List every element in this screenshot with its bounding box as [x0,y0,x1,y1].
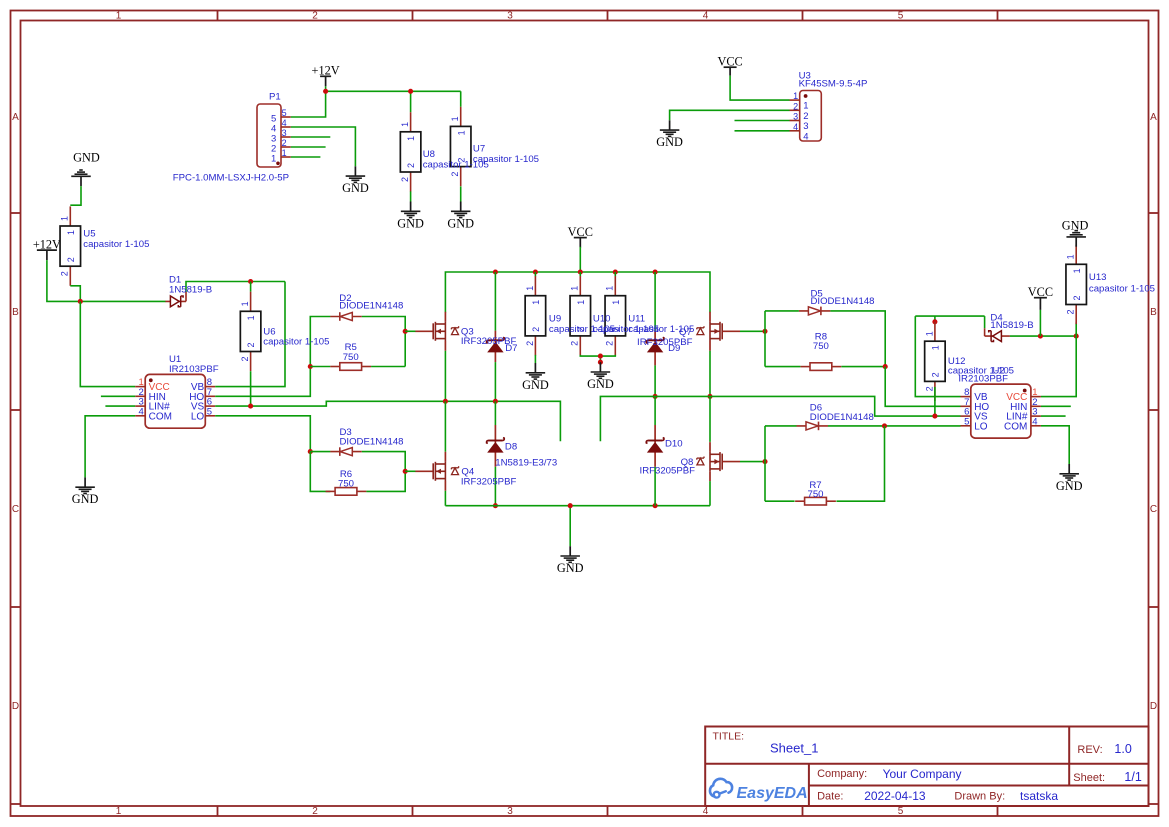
svg-text:GND: GND [73,151,100,165]
svg-text:D9: D9 [668,343,680,354]
svg-text:GND: GND [1056,479,1083,493]
transistor Q7 [697,312,740,351]
wire [984,316,986,328]
capacitor U13 [1066,245,1087,324]
svg-text:U8: U8 [423,149,435,160]
svg-text:1N5819-B: 1N5819-B [990,320,1033,331]
wire [291,156,321,158]
diode D6 [797,422,829,431]
svg-text:P1: P1 [269,92,281,103]
capacitor U5 [60,206,81,285]
ground (U1 COM) [72,477,99,506]
wire [80,301,135,386]
svg-text:A: A [1150,112,1157,123]
junction [78,299,83,304]
wire [444,401,446,452]
wire [1041,426,1069,464]
junction [308,449,313,454]
svg-text:1: 1 [793,91,798,101]
svg-text:5: 5 [207,406,212,417]
wire [47,260,166,301]
svg-text:1: 1 [60,216,70,221]
resistor R5 [330,363,371,371]
svg-text:2022-04-13: 2022-04-13 [864,789,926,803]
wire [445,505,710,507]
junction [762,459,767,464]
wire [410,191,412,201]
svg-text:DIODE1N4148: DIODE1N4148 [811,296,875,307]
svg-text:Date:: Date: [817,791,843,803]
svg-text:2: 2 [312,806,318,817]
wire [310,452,330,492]
wire [250,282,252,292]
wire [740,330,765,332]
wire [915,315,984,317]
ground (U5 top) [71,151,100,187]
svg-text:1: 1 [66,230,76,235]
svg-text:IRF3205PBF: IRF3205PBF [640,466,696,477]
svg-text:1: 1 [1066,254,1076,259]
svg-text:capasitor 1-105: capasitor 1-105 [263,336,329,347]
svg-text:GND: GND [447,216,474,230]
wire [709,396,711,442]
svg-text:Sheet:: Sheet: [1073,772,1105,784]
capacitor U10 [570,276,591,355]
wire [215,401,560,441]
svg-text:U13: U13 [1089,272,1107,283]
diode D8 [487,425,505,467]
title block texts [713,731,1142,804]
svg-text:5: 5 [898,806,904,817]
wire [830,311,885,367]
svg-text:2: 2 [570,341,580,346]
junction [932,319,937,324]
diode D7 [487,331,505,363]
wire [310,317,330,367]
wire [765,500,795,502]
op-amp U1 IR2103PBF [135,354,219,428]
diode D2 [330,312,362,321]
junction [248,404,253,409]
svg-text:1: 1 [282,148,287,158]
wire [310,366,330,368]
junction [1074,334,1079,339]
ground (P1 pin4) [342,166,369,195]
wire [1075,323,1077,337]
wire [709,481,711,506]
capacitor U9 [525,276,546,355]
svg-text:1.0: 1.0 [1114,742,1131,756]
svg-text:GND: GND [522,378,549,392]
svg-text:2: 2 [531,327,541,332]
svg-text:DIODE1N4148: DIODE1N4148 [340,436,404,447]
wire [735,130,790,132]
capacitor U11 [605,276,626,355]
wire [250,371,252,406]
net flag VCC (center) [568,225,593,248]
junction [323,89,328,94]
svg-text:1: 1 [605,286,615,291]
wire [404,331,406,366]
connector U3 [790,71,868,143]
svg-text:GND: GND [587,377,614,391]
junction [248,279,253,284]
EasyEDA logo [710,779,808,802]
svg-text:C: C [12,504,19,515]
wire [494,401,496,425]
junction [403,469,408,474]
wire [934,316,936,322]
svg-text:capasitor 1-105: capasitor 1-105 [948,366,1014,377]
wire [101,395,135,397]
svg-text:2: 2 [240,356,250,361]
svg-text:4: 4 [793,122,798,132]
svg-text:U11: U11 [628,313,645,324]
wire [291,146,326,148]
svg-text:U5: U5 [83,228,95,239]
svg-text:COM: COM [1004,421,1027,432]
ground (U7) [447,202,474,231]
svg-text:2: 2 [931,372,941,377]
junction [653,269,658,274]
svg-text:IR2103PBF: IR2103PBF [169,364,219,375]
svg-text:capasitor 1-105: capasitor 1-105 [1089,284,1155,295]
svg-text:2: 2 [312,11,318,22]
svg-text:capasitor 1-105: capasitor 1-105 [473,154,539,165]
svg-text:3: 3 [282,128,287,138]
junction [932,414,937,419]
svg-text:GND: GND [1062,218,1089,232]
resistor R6 [326,488,367,496]
svg-text:Company:: Company: [817,768,867,780]
svg-text:GND: GND [72,492,99,506]
wire [836,426,884,501]
diode D9 [646,331,664,366]
wire [444,491,446,506]
svg-text:1: 1 [611,300,621,305]
svg-text:4: 4 [139,406,144,417]
svg-text:D7: D7 [505,343,517,354]
svg-text:3: 3 [793,112,798,122]
wire [654,272,656,331]
junction [568,503,573,508]
svg-text:4: 4 [703,806,709,817]
wire [654,467,656,506]
svg-text:GND: GND [557,561,584,575]
svg-text:750: 750 [343,352,359,363]
wire [599,356,601,362]
svg-text:GND: GND [656,135,683,149]
svg-text:2: 2 [406,163,416,168]
wire [534,272,536,276]
wire [1041,415,1066,417]
svg-text:LO: LO [974,421,988,432]
svg-text:5: 5 [282,108,287,118]
svg-text:A: A [12,112,19,123]
svg-text:Your Company: Your Company [883,767,962,781]
svg-text:2: 2 [60,271,70,276]
svg-text:Drawn By:: Drawn By: [954,791,1005,803]
svg-text:U10: U10 [593,313,611,324]
junction [882,423,887,428]
svg-text:1: 1 [525,286,535,291]
net flag +12V (left) [33,237,61,260]
wire [405,330,415,332]
junction [493,269,498,274]
svg-text:1: 1 [240,301,250,306]
wire [709,351,711,397]
ground (U10/U11) [587,362,614,391]
wire [185,292,187,301]
net flag VCC (U3) [717,55,742,76]
wire [764,426,766,501]
wire [105,405,135,407]
svg-text:750: 750 [338,479,354,490]
svg-text:1: 1 [924,331,934,336]
wire [614,272,616,276]
wire [654,396,656,425]
svg-text:Sheet_1: Sheet_1 [770,741,818,756]
wire [445,272,710,312]
diode D3 [330,447,362,456]
wire [460,186,462,201]
wire [765,366,800,368]
diode D5 [799,307,831,316]
wire [1041,405,1071,407]
wire [291,91,326,117]
svg-text:4: 4 [803,131,808,142]
svg-text:C: C [1150,504,1157,515]
title block [705,727,1148,807]
svg-text:1: 1 [246,315,256,320]
svg-text:3: 3 [507,11,513,22]
svg-text:5: 5 [898,11,904,22]
svg-text:1: 1 [400,122,410,127]
svg-text:2: 2 [1072,295,1082,300]
svg-text:1/1: 1/1 [1124,770,1141,784]
diode D10 [646,425,664,467]
wire [735,120,790,122]
svg-text:D: D [12,701,19,712]
svg-text:2: 2 [66,257,76,262]
svg-text:D: D [1150,701,1157,712]
svg-text:1: 1 [116,11,122,22]
wire [362,452,405,472]
wire [670,110,790,120]
junction [707,394,712,399]
junction [598,360,603,365]
transistor Q8 [697,442,740,481]
wire [885,367,960,407]
svg-text:1: 1 [531,300,541,305]
wire [215,416,310,452]
svg-text:2: 2 [924,386,934,391]
junction [403,329,408,334]
wire [366,471,405,491]
svg-text:3: 3 [507,806,513,817]
svg-text:2: 2 [1066,309,1076,314]
wire [310,451,330,453]
svg-text:REV:: REV: [1077,744,1102,756]
svg-text:IRF3205PBF: IRF3205PBF [637,337,693,348]
svg-text:2: 2 [793,101,798,111]
wire [1010,335,1076,337]
wire [654,365,656,396]
resistor R8 [801,363,842,371]
svg-text:KF45SM-9.5-4P: KF45SM-9.5-4P [799,79,868,90]
junction [653,503,658,508]
svg-text:GND: GND [397,216,424,230]
svg-text:2: 2 [400,177,410,182]
junction [443,399,448,404]
wire [740,461,765,463]
wire [984,328,986,336]
svg-text:2: 2 [605,341,615,346]
wire [841,366,885,368]
ground (U8) [397,202,424,231]
svg-text:IRF3205PBF: IRF3205PBF [461,477,517,488]
wire [600,396,960,441]
wire [494,272,496,331]
wire [915,316,960,397]
svg-text:1: 1 [406,136,416,141]
net flag VCC (right) [1028,285,1053,310]
wire [579,272,581,276]
ground (U2 COM) [1056,464,1083,493]
junction [578,269,583,274]
svg-text:1N5819-E3/73: 1N5819-E3/73 [495,457,557,468]
junction [493,503,498,508]
svg-text:B: B [1150,307,1157,318]
svg-text:1: 1 [450,116,460,121]
wire [1041,336,1076,397]
svg-text:DIODE1N4148: DIODE1N4148 [810,412,874,423]
wire [291,136,331,138]
connector P1 [173,92,291,184]
wire [764,311,766,367]
capacitor U8 [400,112,421,191]
wire [325,86,327,91]
transistor Q4 [415,452,458,491]
svg-text:D10: D10 [665,438,683,449]
wire [730,76,789,101]
svg-text:U7: U7 [473,144,485,155]
junction [653,394,658,399]
wire [1039,310,1041,336]
svg-text:2: 2 [282,138,287,148]
transistor Q3 [415,312,458,351]
svg-text:capasitor 1-105: capasitor 1-105 [83,239,149,250]
diode D1 [165,296,186,307]
svg-text:D8: D8 [505,441,517,452]
wire [444,351,446,402]
svg-text:750: 750 [813,341,829,352]
svg-text:EasyEDA: EasyEDA [737,785,808,802]
junction [308,364,313,369]
svg-text:TITLE:: TITLE: [713,731,745,743]
wire [70,286,80,302]
wire [494,467,496,506]
wire [579,247,581,272]
wire [291,127,356,166]
wire [371,366,405,368]
svg-text:U9: U9 [549,313,561,324]
wire [765,310,799,312]
junction [598,354,603,359]
svg-text:GND: GND [342,181,369,195]
svg-text:1: 1 [576,300,586,305]
svg-text:LO: LO [191,411,205,422]
svg-text:2: 2 [525,341,535,346]
diode D4 [985,331,1010,342]
wire [215,282,285,387]
wire [534,355,536,363]
wire [85,416,135,478]
junction [762,329,767,334]
capacitor U6 [240,292,261,371]
wire [494,362,496,401]
wire [326,90,461,92]
op-amp U2 IR2103PBF [958,365,1041,438]
svg-text:1: 1 [1072,268,1082,273]
svg-text:FPC-1.0MM-LSXJ-H2.0-5P: FPC-1.0MM-LSXJ-H2.0-5P [173,173,289,184]
capacitor U12 [924,322,945,401]
junction [533,269,538,274]
svg-text:1: 1 [456,130,466,135]
junction [408,89,413,94]
wire [765,425,797,427]
svg-text:1: 1 [570,286,580,291]
svg-text:COM: COM [149,411,172,422]
ground (U9) [522,363,549,392]
wire [934,387,936,416]
junction [883,364,888,369]
svg-text:2: 2 [246,342,256,347]
svg-text:1: 1 [931,345,941,350]
wire [70,186,81,205]
ground (H-bridge) [557,546,584,575]
svg-text:4: 4 [282,118,287,128]
wire [580,355,615,356]
svg-text:2: 2 [450,172,460,177]
ground (U13) [1062,218,1089,246]
svg-text:4: 4 [703,11,709,22]
wire [569,506,571,547]
wire [410,91,412,112]
junction [493,399,498,404]
resistor R7 [795,497,836,505]
svg-text:4: 4 [1032,416,1037,427]
wire [215,367,310,397]
svg-text:1: 1 [271,153,276,164]
wire [828,425,961,427]
net flag +12V (top) [312,64,340,87]
svg-text:B: B [12,307,19,318]
svg-text:DIODE1N4148: DIODE1N4148 [339,300,403,311]
capacitor U7 [450,107,471,186]
wire [405,470,415,472]
wire [362,317,405,332]
junction [1038,334,1043,339]
svg-text:1N5819-B: 1N5819-B [169,285,212,296]
ground (U3) [656,120,683,149]
junction [613,269,618,274]
svg-text:5: 5 [964,416,969,427]
svg-text:750: 750 [807,489,823,500]
wire [460,91,462,107]
svg-text:1: 1 [116,806,122,817]
svg-text:tsatska: tsatska [1020,789,1058,803]
